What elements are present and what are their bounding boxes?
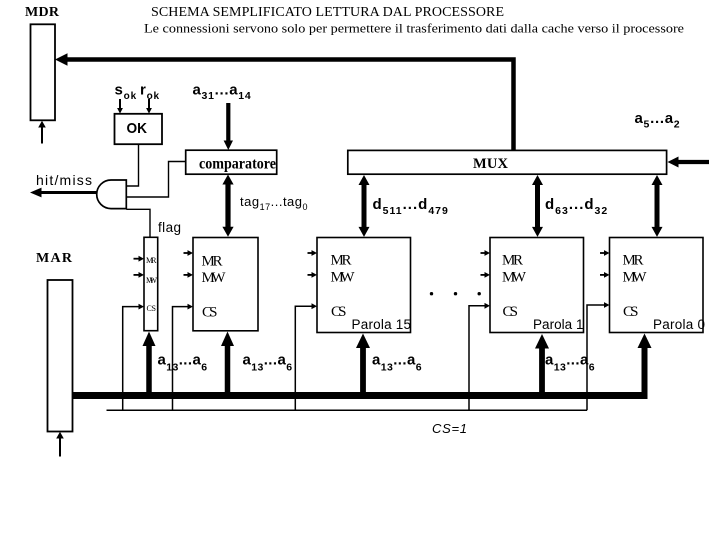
svg-text:MW: MW (623, 270, 648, 286)
svg-text:MR: MR (202, 254, 223, 270)
svg-text:CS: CS (202, 305, 218, 321)
svg-text:CS: CS (503, 304, 519, 320)
svg-text:flag: flag (158, 220, 181, 235)
ellipsis dots (430, 292, 433, 295)
block tag memory (193, 238, 258, 331)
flag register (144, 237, 158, 330)
svg-text:comparatore: comparatore (199, 156, 276, 173)
svg-text:a13...a6: a13...a6 (243, 352, 293, 374)
svg-text:a5...a2: a5...a2 (635, 110, 681, 131)
register MDR (31, 24, 56, 120)
wire flag register to AND gate (126, 209, 150, 237)
block Parola 1 (490, 238, 584, 333)
arrow r_ok into OK (148, 99, 150, 109)
svg-text:MW: MW (331, 270, 356, 286)
svg-text:SCHEMA SEMPLIFICATO LETTURA DA: SCHEMA SEMPLIFICATO LETTURA DAL PROCESSO… (151, 5, 504, 20)
block MUX (348, 150, 667, 174)
address bus (thick) (73, 392, 648, 399)
arrow MW into tag memory (184, 274, 189, 276)
thick arrow a31..a14 into comparatore (226, 103, 230, 142)
arrow s_ok into OK (119, 99, 121, 109)
svg-text:MR: MR (146, 256, 157, 265)
svg-text:MUX: MUX (473, 156, 509, 172)
svg-text:MR: MR (331, 253, 352, 269)
arrow MW into Parola 0 (600, 274, 605, 276)
wire CS=1 line to flag CS input (123, 307, 139, 411)
wire: MUX output to MDR (thick data path) (67, 60, 514, 152)
double arrow MUX to Parola 1 (535, 185, 540, 229)
svg-text:CS: CS (147, 304, 157, 313)
svg-text:a31...a14: a31...a14 (193, 82, 252, 103)
svg-text:hit/miss: hit/miss (36, 172, 92, 188)
svg-text:MR: MR (623, 253, 644, 269)
wire comparatore to AND gate (126, 162, 185, 198)
svg-text:MW: MW (502, 270, 527, 286)
svg-text:a13...a6: a13...a6 (158, 352, 208, 374)
double arrow MUX to Parola 15 (362, 185, 367, 229)
bus arrow up into Parola 15 (360, 347, 366, 397)
block OK (flip-flop) (115, 114, 163, 144)
wire CS=1 horizontal line (107, 409, 588, 411)
AND gate (pointing left) (97, 180, 127, 209)
arrow MR into Parola 15 (308, 252, 313, 254)
svg-text:MW: MW (202, 270, 227, 286)
svg-text:OK: OK (127, 120, 148, 137)
double arrow comparatore to tag block (225, 183, 230, 228)
svg-text:d63...d32: d63...d32 (545, 196, 608, 217)
svg-text:tag17...tag0: tag17...tag0 (240, 194, 308, 212)
svg-text:a13...a6: a13...a6 (372, 352, 422, 374)
bus arrow up into Parola 0 (bus right end) (642, 347, 648, 399)
svg-text:sok: sok (115, 82, 137, 103)
arrowhead into MDR (55, 53, 68, 66)
wire CS=1 line to Parola 1 CS input (469, 306, 485, 411)
svg-text:Parola 1: Parola 1 (533, 317, 584, 332)
wire CS=1 line to tag memory CS input (173, 307, 188, 411)
svg-text:MW: MW (146, 276, 157, 285)
wire CS=1 line to Parola 15 CS input (295, 306, 311, 410)
arrow MW into Parola 1 (481, 274, 486, 276)
arrow MR into Parola 1 (481, 252, 486, 254)
register MAR (48, 280, 73, 432)
bus arrow up into flag register (146, 345, 152, 397)
svg-text:CS=1: CS=1 (432, 421, 467, 436)
arrow into MDR bottom (41, 127, 43, 144)
wire CS=1 line to Parola 0 CS input (587, 305, 604, 410)
arrow MW into Parola 15 (308, 274, 313, 276)
svg-text:CS: CS (623, 304, 639, 320)
arrow MR into Parola 0 (600, 252, 605, 254)
svg-text:MDR: MDR (25, 5, 60, 20)
wire OK to AND gate (126, 144, 138, 186)
block Parola 0 (610, 238, 704, 333)
svg-text:MAR: MAR (36, 251, 73, 266)
arrow into MUX right side (678, 160, 709, 164)
block comparatore (186, 150, 277, 174)
bus arrow up into tag memory (225, 345, 231, 397)
svg-text:d511...d479: d511...d479 (373, 196, 449, 217)
svg-text:MR: MR (502, 253, 523, 269)
svg-text:Le connessioni servono solo pe: Le connessioni servono solo per permette… (144, 21, 684, 36)
svg-text:Parola 0: Parola 0 (653, 317, 705, 332)
arrow into MAR bottom (59, 438, 61, 457)
block Parola 15 (317, 238, 411, 333)
svg-text:rok: rok (140, 82, 160, 103)
arrow MW into flag (134, 274, 140, 276)
svg-text:Parola 15: Parola 15 (352, 317, 412, 332)
bus arrow up into Parola 1 (539, 347, 545, 397)
hit/miss output arrow (41, 191, 97, 194)
svg-text:CS: CS (331, 304, 347, 320)
double arrow MUX to Parola 0 (655, 185, 660, 229)
arrow MR into flag (134, 258, 140, 260)
arrow MR into tag memory (184, 252, 189, 254)
